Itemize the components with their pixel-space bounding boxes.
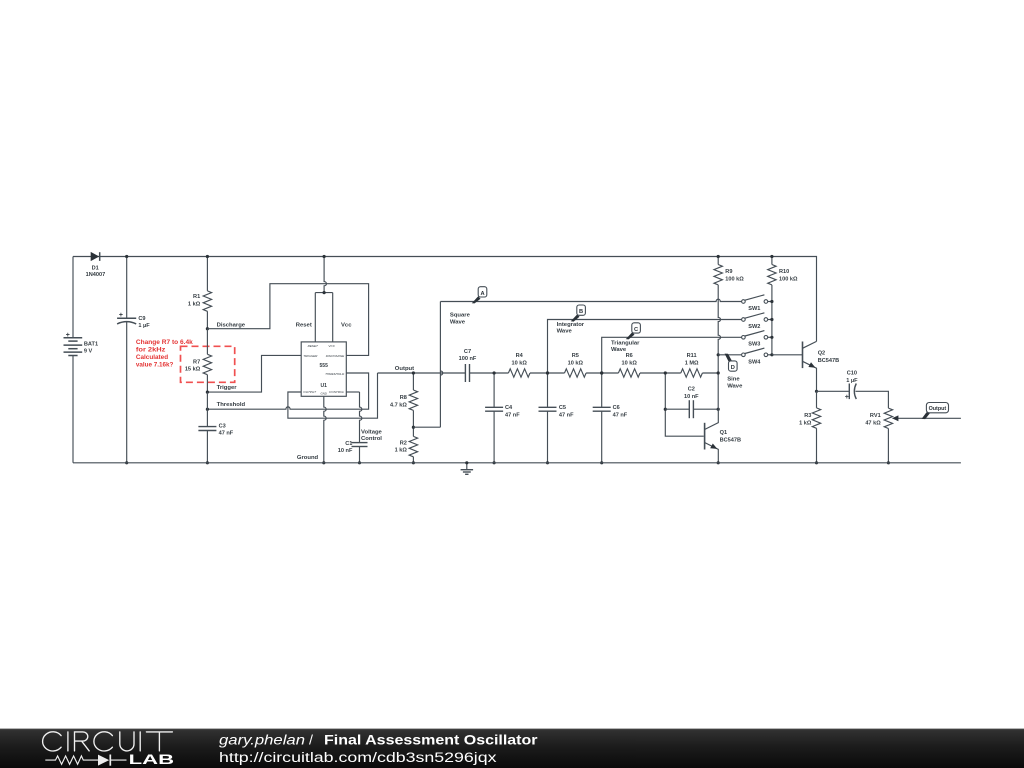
svg-text:/: /: [309, 732, 313, 748]
junction trigger node: [206, 391, 209, 394]
resistor R11: [681, 369, 703, 377]
svg-text:10 nF: 10 nF: [684, 394, 699, 400]
svg-text:Integrator: Integrator: [557, 322, 585, 328]
svg-text:1N4007: 1N4007: [86, 272, 106, 278]
svg-text:Change R7 to 6.4k: Change R7 to 6.4k: [136, 339, 193, 346]
svg-text:1 kΩ: 1 kΩ: [799, 420, 812, 426]
svg-text:value 7.16k?: value 7.16k?: [136, 361, 174, 368]
switch SW2: [745, 313, 765, 318]
wire triangular wave C line: [602, 337, 742, 373]
svg-text:OUTPUT: OUTPUT: [303, 390, 317, 394]
resistor R7: [203, 354, 211, 374]
wire R10 stub: [771, 257, 773, 265]
battery BAT1: [64, 337, 83, 339]
svg-text:C6: C6: [613, 405, 620, 411]
wire C2 branch: [665, 408, 718, 410]
svg-text:GND: GND: [320, 392, 326, 396]
junction R8-R2 node: [412, 426, 415, 429]
svg-text:RV1: RV1: [870, 413, 881, 419]
junction C4 bottom: [493, 461, 496, 464]
flag Output: [922, 412, 931, 419]
wire R10 vertical: [771, 285, 773, 355]
potentiometer RV1: [884, 408, 892, 428]
svg-text:A: A: [480, 291, 484, 297]
svg-text:for 2kHz: for 2kHz: [136, 347, 166, 354]
svg-text:VCC: VCC: [328, 344, 335, 348]
wire Trigger net: [207, 355, 301, 392]
svg-text:Q2: Q2: [818, 351, 825, 357]
svg-text:Sine: Sine: [727, 377, 740, 383]
wire C6 branch: [601, 373, 603, 463]
wire R2 branch: [412, 427, 414, 463]
switch SW4: [745, 348, 765, 353]
op-amp U1 555 timer box: [301, 342, 346, 396]
svg-text:R10: R10: [779, 269, 789, 275]
junction C3 bottom: [206, 461, 209, 464]
junction GND pin bottom: [322, 461, 325, 464]
junction R2 bottom: [412, 461, 415, 464]
switch SW3: [745, 331, 765, 336]
svg-text:4.7 kΩ: 4.7 kΩ: [390, 403, 407, 409]
svg-text:R1: R1: [193, 294, 200, 300]
svg-text:1 kΩ: 1 kΩ: [395, 448, 408, 454]
junction R1 bottom / discharge node: [206, 327, 209, 330]
svg-text:C3: C3: [219, 424, 226, 430]
resistor R8: [409, 390, 417, 410]
svg-text:10 kΩ: 10 kΩ: [512, 360, 528, 366]
svg-text:Reset: Reset: [296, 322, 312, 328]
svg-text:C10: C10: [847, 371, 857, 377]
svg-text:D: D: [731, 365, 735, 371]
svg-text:R7: R7: [193, 359, 200, 365]
junction Q1 emitter bottom: [717, 461, 720, 464]
wire R11 bypass vertical: [665, 373, 704, 436]
svg-text:D1: D1: [92, 265, 99, 271]
capacitor C2: [688, 400, 690, 418]
svg-text:1 MΩ: 1 MΩ: [685, 360, 699, 366]
svg-text:C1: C1: [345, 441, 352, 447]
svg-text:C7: C7: [464, 349, 471, 355]
wire Vcc feed to 555: [324, 257, 326, 293]
svg-text:Wave: Wave: [727, 383, 743, 389]
junction SW4 right: [770, 353, 773, 356]
annotation red dashed box: [181, 346, 235, 382]
wire sine vertical: [718, 285, 720, 355]
RV1 wiper arrow: [898, 417, 961, 419]
junction C4 top: [493, 371, 496, 374]
svg-text:Output: Output: [395, 366, 414, 372]
wire integrator wave B line: [548, 320, 742, 374]
svg-text:Triangular: Triangular: [611, 341, 640, 347]
svg-text:Wave: Wave: [611, 347, 627, 353]
junction C6 top: [600, 371, 603, 374]
CircuitLab wordmark CIRCUIT: [43, 732, 173, 751]
svg-text:Ground: Ground: [297, 455, 319, 461]
svg-text:R3: R3: [804, 413, 811, 419]
svg-text:DISCHARGE: DISCHARGE: [326, 354, 345, 358]
svg-text:Output: Output: [929, 406, 947, 412]
wire emitter to C10: [817, 390, 850, 392]
wire 555 control to C1: [346, 391, 359, 393]
junction C5 top: [546, 371, 549, 374]
wire R7 branch: [206, 329, 208, 392]
wire R9 stub: [717, 257, 719, 265]
svg-text:47 kΩ: 47 kΩ: [865, 420, 881, 426]
svg-text:+: +: [119, 312, 123, 319]
junction C9 top: [125, 255, 128, 258]
wire ground rail: [73, 462, 961, 464]
wire C10 to RV1: [855, 391, 888, 408]
svg-text:Wave: Wave: [557, 329, 573, 335]
svg-text:100 nF: 100 nF: [459, 356, 477, 362]
wire reset-vcc split: [315, 293, 332, 342]
svg-text:BAT1: BAT1: [84, 341, 98, 347]
wire output line: [378, 372, 719, 374]
resistor R6: [618, 369, 640, 377]
junction ground symbol: [465, 461, 468, 464]
svg-text:B: B: [579, 309, 583, 315]
svg-text:+: +: [66, 332, 70, 339]
junction R8 top: [412, 371, 415, 374]
capacitor C6: [593, 406, 611, 408]
svg-text:Threshold: Threshold: [217, 402, 246, 408]
svg-text:100 kΩ: 100 kΩ: [779, 276, 798, 282]
wire sine to SW4: [718, 354, 741, 356]
svg-text:100 kΩ: 100 kΩ: [725, 276, 744, 282]
capacitor C3: [198, 426, 216, 428]
wire square wave A line: [440, 299, 741, 301]
wire R8 branch: [412, 373, 414, 427]
capacitor C1: [352, 442, 368, 444]
svg-text:SW4: SW4: [748, 360, 761, 366]
wire C3 branch: [206, 392, 208, 463]
wire C9 branch: [126, 257, 128, 463]
transistor Q1: [704, 423, 706, 450]
svg-text:R8: R8: [400, 395, 407, 401]
junction C9 bottom: [125, 461, 128, 464]
junction C2 left top: [664, 371, 667, 374]
svg-text:gary.phelan: gary.phelan: [219, 732, 305, 748]
svg-text:1 µF: 1 µF: [846, 378, 858, 384]
wire Discharge net: [207, 284, 368, 356]
svg-text:THRESHOLD: THRESHOLD: [325, 372, 345, 376]
svg-text:C4: C4: [505, 405, 513, 411]
svg-text:SW3: SW3: [748, 342, 760, 348]
resistor R2: [409, 436, 417, 456]
svg-text:Wave: Wave: [450, 319, 466, 325]
junction C2 right: [717, 408, 720, 411]
svg-text:10 nF: 10 nF: [338, 448, 353, 454]
svg-text:RESET: RESET: [308, 344, 319, 348]
junction SW1 right: [770, 300, 773, 303]
flag B: [571, 314, 580, 321]
wire top rail (Vcc net): [73, 257, 817, 342]
flag C: [626, 332, 635, 339]
wire R3 branch: [816, 391, 818, 463]
svg-text:Trigger: Trigger: [217, 385, 238, 391]
svg-text:R11: R11: [687, 353, 697, 359]
wire left vertical (battery): [72, 257, 74, 463]
junction C line tap: [600, 371, 603, 374]
flag A: [472, 296, 481, 303]
svg-text:Vcc: Vcc: [341, 322, 352, 328]
junction R9 top: [717, 255, 720, 258]
svg-text:47 nF: 47 nF: [559, 412, 574, 418]
junction C5 bottom: [546, 461, 549, 464]
junction SW2 right: [770, 318, 773, 321]
svg-text:BC547B: BC547B: [818, 358, 839, 364]
junction RV1 bottom: [887, 461, 890, 464]
svg-text:1 kΩ: 1 kΩ: [188, 301, 201, 307]
junction B line tap: [546, 371, 549, 374]
wire C5 branch: [547, 373, 549, 463]
svg-text:C2: C2: [688, 387, 695, 393]
diode D1: [91, 252, 100, 261]
junction SW3 right: [770, 336, 773, 339]
svg-text:9 V: 9 V: [84, 349, 93, 355]
junction sine node SW4: [717, 353, 720, 356]
junction R3 bottom: [815, 461, 818, 464]
capacitor C5: [539, 406, 557, 408]
svg-text:C9: C9: [138, 316, 145, 322]
svg-text:15 kΩ: 15 kΩ: [185, 367, 201, 373]
svg-text:BC547B: BC547B: [720, 438, 741, 444]
junction reset-vcc node: [323, 291, 326, 294]
junction threshold node: [206, 408, 209, 411]
wire R1 branch: [206, 257, 208, 329]
transistor Q2: [802, 342, 804, 369]
svg-text:47 nF: 47 nF: [505, 412, 520, 418]
footer bar: [0, 729, 1024, 768]
resistor R3: [812, 408, 820, 428]
svg-text:555: 555: [320, 363, 329, 369]
svg-text:C5: C5: [559, 405, 566, 411]
junction C1 bottom: [358, 461, 361, 464]
wire C4 branch: [493, 373, 495, 463]
svg-text:U1: U1: [320, 383, 327, 389]
svg-text:Final Assessment Oscillator: Final Assessment Oscillator: [324, 732, 538, 748]
svg-text:10 kΩ: 10 kΩ: [622, 360, 638, 366]
resistor R9: [714, 265, 722, 285]
capacitor C7: [464, 364, 466, 382]
svg-text:Square: Square: [450, 313, 471, 319]
svg-text:Discharge: Discharge: [217, 322, 246, 328]
capacitor C9: [117, 317, 136, 319]
junction R1 top: [206, 255, 209, 258]
svg-text:10 kΩ: 10 kΩ: [568, 360, 584, 366]
svg-text:http://circuitlab.com/cdb3sn52: http://circuitlab.com/cdb3sn5296jqx: [219, 750, 497, 766]
resistor R5: [565, 369, 587, 377]
svg-text:R5: R5: [572, 353, 579, 359]
svg-text:Calculated: Calculated: [136, 354, 168, 361]
junction Vcc feed top: [323, 255, 326, 258]
svg-text:SW1: SW1: [748, 306, 760, 312]
wire feedback divider to A: [413, 426, 440, 428]
svg-text:47 nF: 47 nF: [613, 412, 628, 418]
svg-text:Control: Control: [361, 436, 382, 442]
wire Threshold net: [207, 373, 368, 409]
svg-text:47 nF: 47 nF: [219, 431, 234, 437]
svg-text:CONTROL: CONTROL: [329, 390, 344, 394]
svg-text:LAB: LAB: [129, 751, 174, 767]
svg-text:+: +: [845, 392, 849, 401]
switch SW1: [745, 295, 765, 300]
svg-text:SW2: SW2: [748, 324, 760, 330]
junction sine node main: [717, 371, 720, 374]
resistor R1: [203, 291, 211, 311]
capacitor C10: [848, 384, 850, 400]
svg-text:1 µF: 1 µF: [138, 323, 150, 329]
svg-text:R6: R6: [626, 353, 633, 359]
wire 555 output to bus: [288, 373, 378, 418]
svg-text:TRIGGER: TRIGGER: [303, 354, 318, 358]
wire C1 to ground: [359, 447, 361, 463]
junction C2 left: [664, 408, 667, 411]
capacitor C4: [485, 406, 503, 408]
svg-text:R9: R9: [725, 269, 732, 275]
flag D: [725, 354, 732, 362]
svg-text:Q1: Q1: [720, 430, 727, 436]
svg-text:C: C: [634, 327, 638, 333]
resistor R4: [508, 369, 530, 377]
svg-text:R4: R4: [516, 353, 524, 359]
junction Q2 emitter node: [815, 390, 818, 393]
svg-text:Voltage: Voltage: [361, 429, 383, 435]
ground symbol: [466, 463, 468, 470]
wire 555 GND to ground: [324, 396, 326, 463]
resistor R10: [768, 265, 776, 285]
svg-text:R2: R2: [400, 440, 407, 446]
junction C6 bottom: [600, 461, 603, 464]
CircuitLab logo resistor-diode symbol: [45, 755, 126, 766]
junction R10 top: [770, 255, 773, 258]
wire SW bank to Q2 base: [772, 354, 803, 356]
